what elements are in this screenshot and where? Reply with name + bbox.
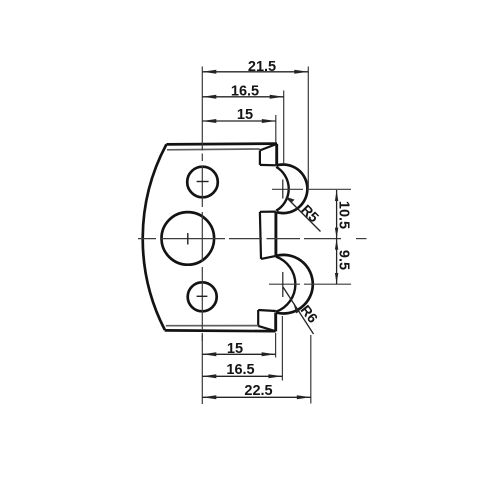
arrow down 9.5 <box>335 273 338 284</box>
svg-text:15: 15 <box>237 107 253 123</box>
part outline: upper bump outer arc R5 <box>276 165 307 214</box>
arrow down 10.5 <box>335 228 338 239</box>
bevel: horizontal step above upper bump <box>260 164 276 167</box>
part outline: top back edge (second line) <box>167 148 260 151</box>
bevel: vertical at top right <box>259 150 261 165</box>
bevel: tab top horizontal <box>260 211 276 213</box>
centerline: large hole vertical tick <box>187 233 189 245</box>
part outline: right edge tab between bumps <box>274 212 277 256</box>
extension line: top 16.5 <box>283 91 285 164</box>
extension line: bottom centerline down <box>201 333 203 404</box>
svg-text:15: 15 <box>227 341 243 357</box>
part outline: bottom edge <box>165 329 276 333</box>
bevel: lower tab top horizontal <box>258 310 276 311</box>
extension line: bottom 22.5 <box>310 335 312 404</box>
dimension line: 22.5 bottom <box>202 396 310 398</box>
svg-text:9.5: 9.5 <box>336 250 352 270</box>
extension line: top centerline up <box>201 67 203 151</box>
arrow up 9.5 <box>335 239 338 250</box>
centerline: lower bump vertical tick <box>282 272 284 297</box>
dimension line: 15 bottom <box>202 353 275 355</box>
part outline: right edge above upper notch <box>275 144 278 165</box>
bevel: upper bump inner arc <box>276 167 289 211</box>
bevel: top-right corner diagonal <box>260 144 277 150</box>
bevel: tab left vertical <box>260 212 261 259</box>
arrow left 21.5 <box>202 70 216 74</box>
part outline: right edge below lower bump <box>274 313 277 332</box>
svg-text:21.5: 21.5 <box>248 59 276 75</box>
extension line: top 15 <box>275 115 277 143</box>
bevel: lower tab left vertical <box>257 310 259 326</box>
svg-text:10.5: 10.5 <box>336 201 352 229</box>
part outline: lower bump outer arc R6 <box>276 255 313 314</box>
extension line: top 21.5 <box>307 67 309 189</box>
part outline: top edge <box>166 142 277 145</box>
centerline: lower bump horizontal axis <box>269 283 351 285</box>
hole: bottom small circle <box>188 282 217 311</box>
dimension line: vertical 10.5 / 9.5 <box>336 190 338 284</box>
svg-text:22.5: 22.5 <box>244 383 272 399</box>
leader line R5 <box>286 197 321 232</box>
hole: top small circle <box>187 167 218 198</box>
svg-text:R6: R6 <box>298 302 322 326</box>
dimension line: 16.5 top <box>202 96 283 98</box>
centerline: vertical through holes <box>201 154 203 342</box>
dimension line: 15 top <box>202 120 275 122</box>
centerline: horizontal axis end dash <box>356 238 367 240</box>
arrow right 15 top <box>262 119 276 123</box>
dimension line: 21.5 top <box>202 71 308 73</box>
arrow right 16.5 bottom <box>268 374 282 378</box>
centerline: upper bump horizontal axis <box>272 188 351 190</box>
bevel: bottom-right corner diagonal <box>258 326 275 331</box>
svg-text:16.5: 16.5 <box>226 362 254 378</box>
hole: center large circle <box>162 212 215 265</box>
svg-text:16.5: 16.5 <box>231 83 259 99</box>
arrow left 16.5 bottom <box>202 374 216 378</box>
arrow up 10.5 <box>335 190 338 201</box>
leader line R6 <box>283 287 314 334</box>
centerline: top hole horizontal tick <box>197 181 209 183</box>
arrow left 15 top <box>202 119 216 123</box>
arrow left 15 bottom <box>202 352 216 356</box>
centerline: bottom hole horizontal tick <box>197 295 208 297</box>
arrow left 22.5 bottom <box>202 395 216 399</box>
arrow right 15 bottom <box>262 352 276 356</box>
bevel: lower bump inner arc <box>276 257 295 312</box>
arrow right 16.5 top <box>270 95 284 99</box>
centerline: horizontal main axis <box>138 238 341 240</box>
centerline: upper bump vertical tick <box>282 180 284 199</box>
part outline: curved left edge <box>143 144 167 330</box>
arrow right 22.5 bottom <box>297 395 311 399</box>
leader arrow R5 <box>286 197 295 202</box>
leader arrow R6 <box>294 304 300 314</box>
dimension line: 16.5 bottom <box>202 375 282 377</box>
bevel: tab bottom slant <box>261 256 276 259</box>
extension line: bottom 16.5 <box>281 316 283 381</box>
bevel: bottom second line <box>166 325 258 327</box>
arrow left 16.5 top <box>202 95 216 99</box>
arrow right 21.5 <box>294 70 308 74</box>
extension line: bottom 15 <box>275 333 277 358</box>
